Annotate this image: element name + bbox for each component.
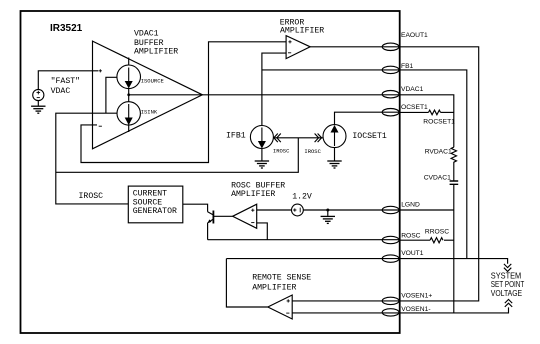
svg-text:AMPLIFIER: AMPLIFIER — [231, 190, 275, 199]
svg-text:AMPLIFIER: AMPLIFIER — [252, 283, 296, 292]
svg-text:OCSET1: OCSET1 — [401, 104, 428, 111]
svg-text:IROSC: IROSC — [273, 147, 290, 154]
svg-text:ISINK: ISINK — [141, 108, 158, 115]
svg-text:VOUT1: VOUT1 — [401, 250, 424, 257]
svg-text:CURRENT: CURRENT — [133, 190, 167, 199]
svg-text:BUFFER: BUFFER — [134, 39, 164, 48]
svg-text:ISOURCE: ISOURCE — [141, 78, 165, 85]
svg-text:REMOTE SENSE: REMOTE SENSE — [252, 274, 311, 283]
svg-text:ROSC: ROSC — [401, 233, 420, 240]
svg-text:"FAST": "FAST" — [51, 76, 80, 86]
svg-text:AMPLIFIER: AMPLIFIER — [280, 27, 324, 36]
svg-text:IOCSET1: IOCSET1 — [352, 132, 386, 141]
svg-text:VDAC1: VDAC1 — [401, 86, 424, 93]
svg-text:IFB1: IFB1 — [226, 132, 246, 141]
svg-text:VDAC1: VDAC1 — [134, 30, 159, 39]
svg-text:ROCSET1: ROCSET1 — [423, 119, 455, 126]
svg-text:GENERATOR: GENERATOR — [133, 207, 177, 216]
svg-text:EAOUT1: EAOUT1 — [401, 32, 428, 39]
svg-text:IR3521: IR3521 — [50, 23, 83, 34]
svg-text:FB1: FB1 — [401, 63, 414, 70]
svg-text:VOSEN1+: VOSEN1+ — [401, 293, 432, 300]
svg-text:VDAC: VDAC — [51, 87, 71, 96]
svg-text:LGND: LGND — [401, 202, 420, 209]
svg-text:RVDAC1: RVDAC1 — [425, 148, 452, 155]
svg-text:CVDAC1: CVDAC1 — [424, 175, 451, 182]
svg-text:VOSEN1-: VOSEN1- — [401, 306, 430, 313]
svg-text:RROSC: RROSC — [425, 229, 449, 236]
svg-text:VOLTAGE: VOLTAGE — [491, 288, 523, 298]
svg-text:IROSC: IROSC — [79, 192, 104, 201]
svg-text:AMPLIFIER: AMPLIFIER — [134, 48, 178, 57]
svg-text:ROSC BUFFER: ROSC BUFFER — [231, 181, 285, 190]
svg-text:1.2V: 1.2V — [292, 192, 312, 201]
svg-text:IROSC: IROSC — [304, 148, 321, 155]
